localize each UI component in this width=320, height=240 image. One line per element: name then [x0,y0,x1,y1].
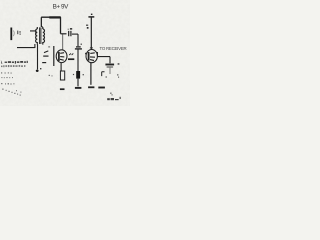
wire T1 primary bottom tail [37,45,39,70]
node terminal dot [36,70,39,72]
transistor Q2 emitter stroke [90,59,94,62]
label caption line 2 [1,65,25,67]
resistor R1 filled box [76,71,80,79]
transformer T1 secondary winding [43,27,45,45]
label bottom right text [107,97,121,100]
node base dot [85,53,86,55]
ground G1 [75,87,82,89]
transistor Q2 circle [86,50,97,63]
wire tick [48,46,50,48]
transistor Q2 collector stroke [90,52,95,55]
wire rail right drop [60,17,62,34]
ground G2 [60,88,65,90]
wire C3 tail faint [109,68,111,74]
transistor Q2 mid stroke [90,56,95,58]
transistor Q1 emitter stroke [60,58,64,61]
transistor Q1 base bar [58,52,60,61]
capacitor C1 plates [69,31,71,36]
wire base feed line [53,46,55,66]
label faint text mid [49,75,53,77]
terminal output post [88,16,94,18]
paper background [0,0,130,106]
svg-text:TO RECEIVER: TO RECEIVER [100,46,127,51]
resistor R2 box [60,71,64,80]
wire Q2 collector drop [90,18,92,50]
ground G4 [98,87,105,89]
transistor Q2 base bar [88,52,90,61]
jack curve [13,31,16,37]
label plus mark [81,44,82,45]
label side ticks [73,74,74,75]
capacitor C2 plates [76,46,81,48]
label speck diagonal [2,89,21,96]
svg-text:B+ 9V: B+ 9V [53,4,70,11]
battery B1 plate marks [44,51,48,53]
transformer T1 primary winding [36,27,38,45]
wire Q2 emitter lead [90,63,92,85]
wire C2 to R1 [77,50,79,72]
label caption line 1 [1,60,28,64]
wire input top to T1 primary [30,31,36,36]
wire top tick on Q2 lead [90,47,93,49]
label faint row [1,77,13,78]
wire corner mark [102,72,105,76]
wire Q2 output right [97,52,110,63]
wire corner down [77,34,79,46]
wire Q1 emitter lead [60,63,62,71]
wire thick dash [68,58,74,60]
transistor Q1 circle [56,50,67,63]
node stray dot [40,68,41,69]
label caption dots row [1,72,11,73]
wire Q1 collector lead [62,34,64,50]
ground G3 [88,86,94,88]
wire bottom up-tick [34,44,36,48]
wire top supply rail [41,16,61,18]
capacitor C3 plate thick [105,64,114,66]
wire thick segment of rail [49,16,60,18]
label speck row [1,83,14,85]
label J1 [17,31,21,35]
wire R1 to ground [77,79,79,87]
capacitor C3 plate thin [107,66,114,68]
transformer T1 core [40,27,41,44]
transistor Q1 collector stroke [60,52,64,55]
label coupling marks [69,53,73,55]
wire rail left drop to transformer [40,17,42,27]
label value marks right [118,63,120,64]
label C1 blob [70,28,72,30]
paper mottling [0,0,130,106]
jack J1 input [10,28,12,41]
wire input bottom to T1 primary [17,47,35,49]
label arrow marks [86,25,88,26]
wire C1 to right corner [72,33,78,35]
wire T1 secondary top lead [41,18,42,28]
transistor Q1 mid stroke [60,56,64,58]
wire junction to C1 [61,33,67,35]
